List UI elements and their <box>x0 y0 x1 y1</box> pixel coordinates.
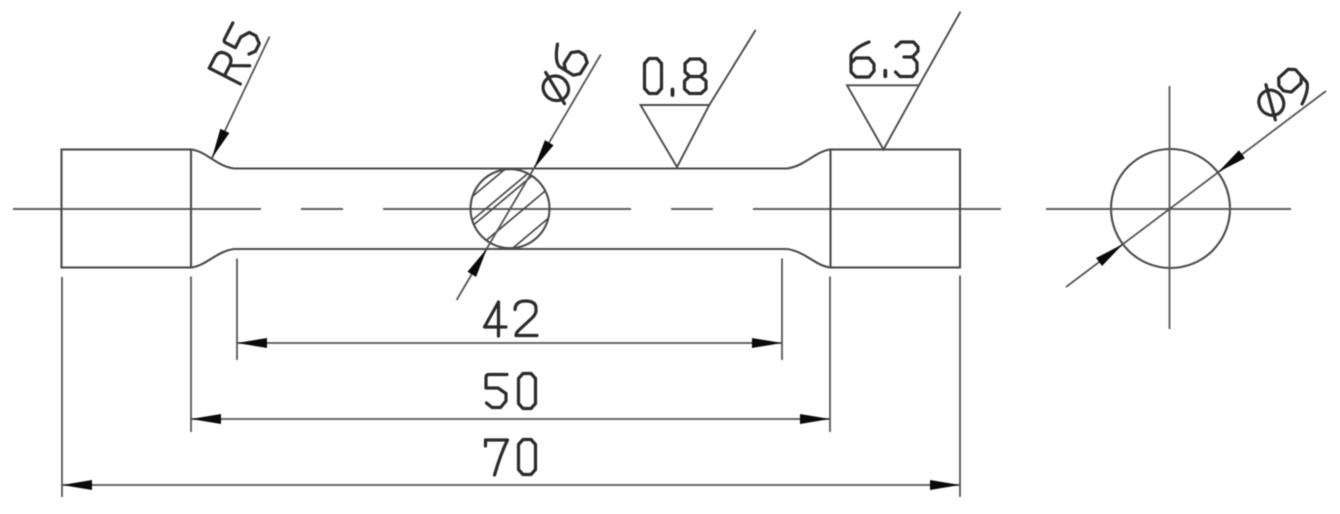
dimension line 42 <box>237 342 782 344</box>
leader line R5 <box>212 37 270 159</box>
leader line diameter 6 <box>457 55 601 301</box>
end view vertical centerline <box>1169 86 1171 329</box>
label 70 <box>486 440 536 476</box>
roughness symbol 0.8 tail <box>709 30 755 105</box>
arrow 70 left <box>62 480 92 490</box>
label diameter 9 <box>1251 63 1315 126</box>
dimension line 70 <box>62 484 960 486</box>
fillet top-right <box>787 150 831 169</box>
label 0.8 <box>645 59 707 96</box>
fillet bottom-right <box>787 249 831 268</box>
label diameter 6 <box>531 40 592 107</box>
extension line x191 <box>190 277 192 433</box>
arrow 50 left <box>191 414 221 424</box>
extension line x782 <box>781 259 783 361</box>
section hatching <box>457 157 562 260</box>
end view circle <box>1111 149 1230 268</box>
left grip rectangle <box>62 150 192 268</box>
arrow 42 left <box>237 338 267 348</box>
extension line right x960 <box>959 276 961 498</box>
label 6.3 <box>851 42 918 77</box>
fillet top-left <box>191 150 234 169</box>
section circle (hatched) <box>471 169 550 248</box>
roughness symbol 0.8 triangle <box>641 105 710 167</box>
gauge bottom line <box>234 248 787 250</box>
arrow R5 <box>207 129 229 160</box>
label 50 <box>486 374 536 409</box>
fillet bottom-left <box>191 249 234 268</box>
label R5 <box>209 23 263 84</box>
centerline main axis <box>13 208 1005 210</box>
roughness symbol 6.3 triangle <box>847 85 919 149</box>
arrow d6 bottom <box>467 246 491 277</box>
arrow 50 right <box>800 414 830 424</box>
extension line x830 <box>829 277 831 433</box>
arrow d9 lower <box>1096 240 1126 266</box>
label 42 <box>485 301 538 336</box>
roughness symbol 6.3 tail <box>919 12 961 86</box>
arrow 42 right <box>752 338 782 348</box>
extension line x237 <box>236 259 238 361</box>
gauge top line <box>234 167 787 169</box>
arrow 70 right <box>930 480 960 490</box>
arrow d9 upper <box>1215 150 1245 176</box>
leader line diameter 9 <box>1066 91 1326 287</box>
right grip rectangle <box>831 150 961 268</box>
arrow d6 top <box>530 140 554 171</box>
extension line left x62 <box>61 277 63 497</box>
end view horizontal centerline <box>1046 208 1291 210</box>
dimension line 50 <box>191 418 830 420</box>
